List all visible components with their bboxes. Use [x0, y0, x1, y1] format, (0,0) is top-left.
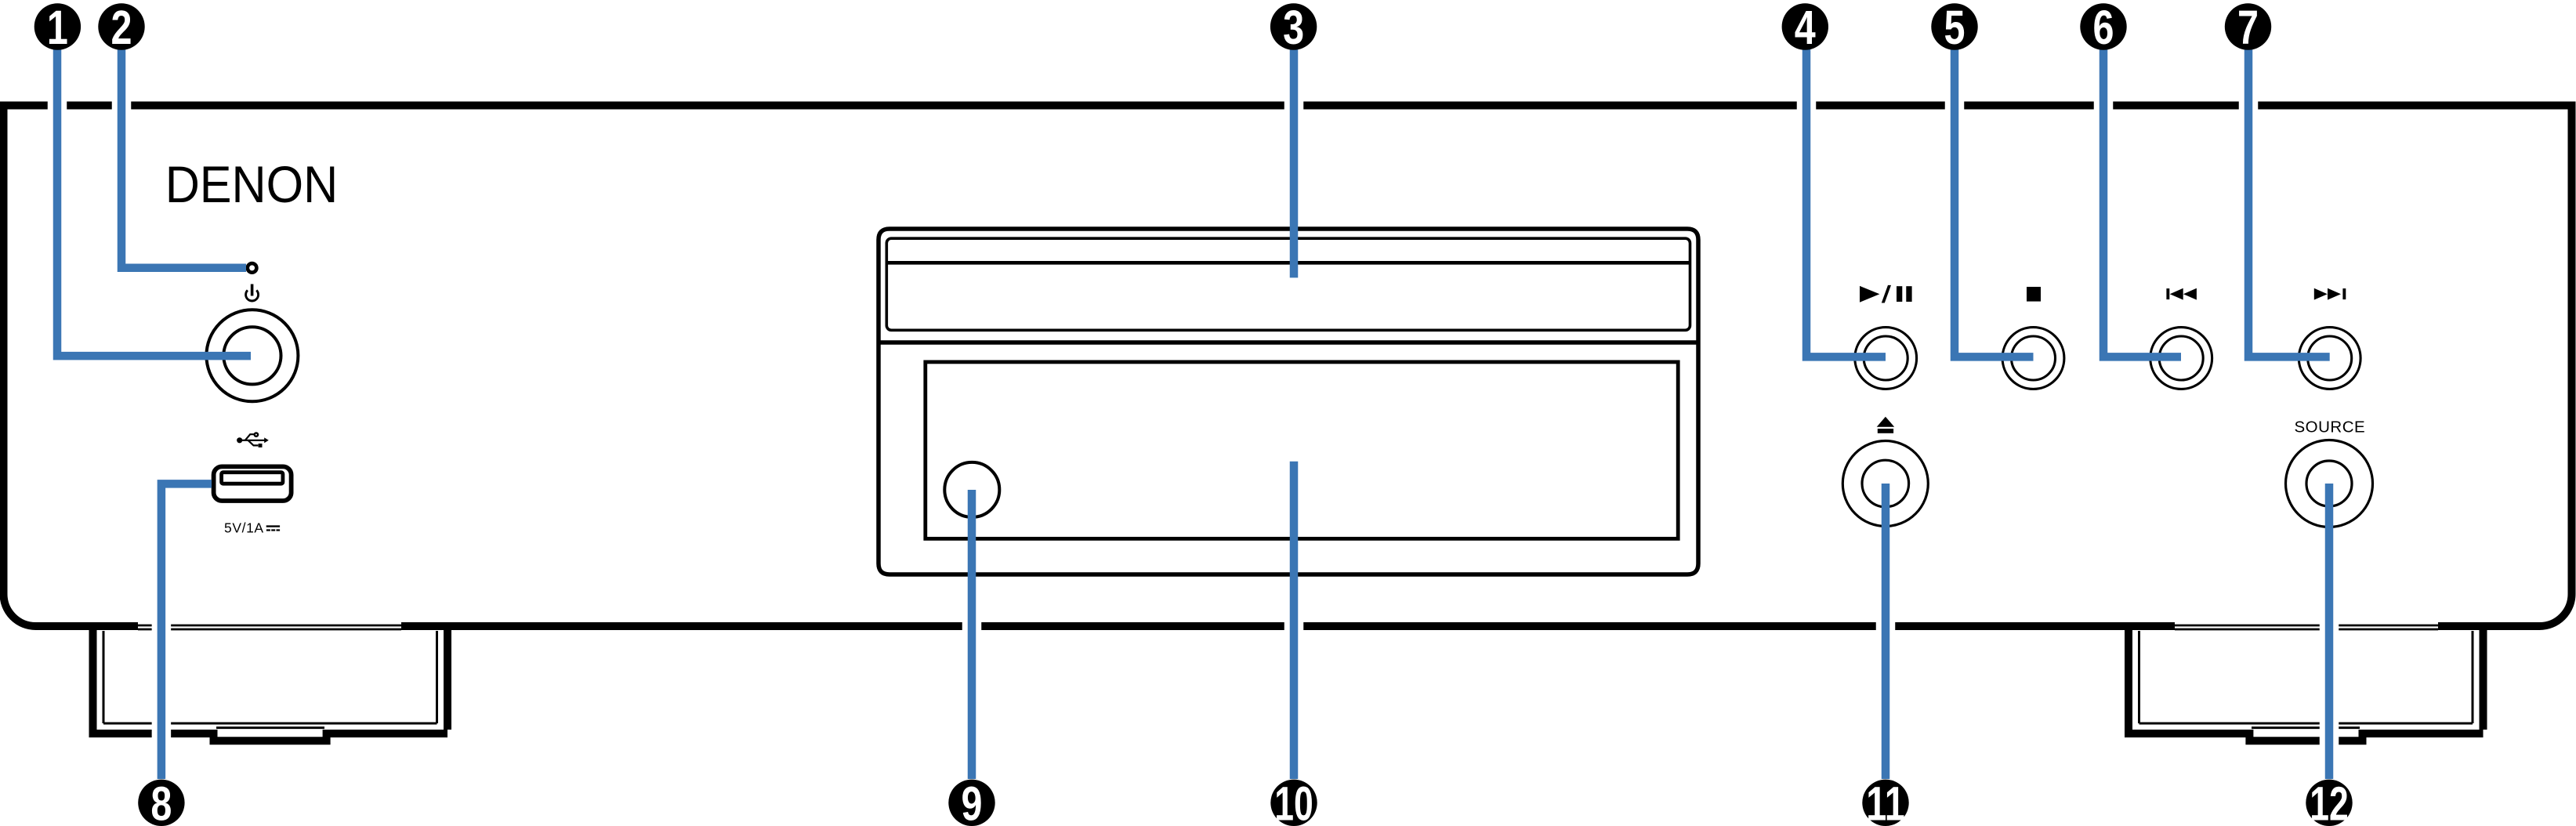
leader line 8 to USB port — [161, 484, 212, 779]
right foot pedestal inner line — [2252, 726, 2360, 729]
tray bottom divider — [879, 340, 1698, 345]
svg-text:2: 2 — [111, 1, 132, 54]
right foot inner line — [2139, 631, 2473, 723]
thin double bottom-edge lines over left foot — [138, 625, 401, 629]
bottom edge cutout over left foot — [138, 621, 401, 632]
right foot outline with pedestal — [2125, 626, 2484, 741]
display window — [926, 362, 1678, 539]
white casing for leader 5 — [1955, 31, 2034, 357]
white casing for leader 6 — [2103, 31, 2181, 357]
svg-text:6: 6 — [2093, 1, 2114, 54]
disc tray inner face — [886, 238, 1690, 330]
callout 9 — [948, 780, 995, 826]
leader line 9 to remote sensor — [968, 490, 976, 779]
svg-text:DENON: DENON — [165, 155, 339, 213]
leader line 6 to skip-back button — [2103, 31, 2181, 357]
disc tray and display bezel container — [879, 229, 1698, 574]
svg-text:1: 1 — [47, 1, 68, 54]
white casing for leader 11 — [1876, 484, 1896, 779]
callout 1 — [34, 3, 81, 49]
leader line 4 to play/pause button — [1806, 31, 1886, 357]
skip-back symbol — [2166, 288, 2197, 300]
skip-forward button — [2299, 328, 2360, 389]
power indicator LED — [248, 263, 257, 273]
callout 11 — [1862, 780, 1908, 826]
white casing for leader 8 — [161, 484, 212, 779]
svg-text:9: 9 — [962, 777, 983, 826]
callout 8 — [138, 780, 184, 826]
callout 7 — [2225, 3, 2271, 49]
white casing for leader 7 — [2248, 31, 2330, 357]
leader line 5 to stop button — [1955, 31, 2034, 357]
leader line 7 to skip-forward button — [2248, 31, 2330, 357]
eject symbol — [1877, 417, 1895, 433]
front panel outline — [4, 106, 2572, 627]
svg-text:SOURCE: SOURCE — [2295, 418, 2366, 437]
power button — [206, 310, 298, 401]
USB icon — [237, 433, 269, 447]
disc tray slit — [886, 261, 1690, 265]
remote control sensor — [944, 462, 999, 517]
white casing for leader 4 — [1806, 31, 1886, 357]
left foot outline with pedestal — [89, 626, 448, 741]
stop button — [2002, 328, 2064, 389]
eject button — [1842, 441, 1928, 527]
callout 5 — [1931, 3, 1977, 49]
left foot pedestal inner line — [216, 726, 324, 729]
svg-text:4: 4 — [1795, 1, 1816, 54]
svg-text:10: 10 — [1274, 777, 1313, 826]
callout 10 — [1270, 780, 1317, 826]
callout 4 — [1782, 3, 1828, 49]
svg-text:12: 12 — [2310, 777, 2349, 826]
bottom edge cutout over right foot — [2175, 621, 2438, 632]
USB port — [214, 466, 292, 501]
svg-text:8: 8 — [150, 777, 172, 826]
white casing for leader 3 — [1284, 31, 1304, 277]
leader line 12 to SOURCE button — [2325, 484, 2334, 779]
left foot inner line — [103, 631, 437, 723]
svg-text:5: 5 — [1944, 1, 1966, 54]
callout 2 — [98, 3, 144, 49]
stop symbol — [2027, 287, 2041, 302]
power standby symbol — [246, 284, 259, 301]
svg-text:5V/1A: 5V/1A — [224, 520, 264, 536]
skip-forward symbol — [2314, 288, 2346, 300]
DC symbol — [266, 527, 280, 531]
play/pause symbol — [1860, 285, 1912, 303]
leader line 1 to power button — [57, 31, 251, 356]
white casing for leader 1 — [57, 31, 251, 356]
skip-back button — [2150, 328, 2212, 389]
callout 6 — [2080, 3, 2126, 49]
svg-text:3: 3 — [1283, 1, 1304, 54]
svg-text:7: 7 — [2237, 1, 2259, 54]
svg-text:11: 11 — [1866, 777, 1905, 826]
white casing for leader 2 — [121, 31, 246, 268]
callout 3 — [1270, 3, 1317, 49]
white casing for leader 12 — [2320, 484, 2339, 779]
SOURCE button — [2286, 440, 2373, 527]
leader line 10 to display — [1290, 462, 1299, 779]
callout 12 — [2306, 780, 2352, 826]
white casing for leader 10 — [1284, 462, 1304, 779]
leader line 2 to power LED — [121, 31, 246, 268]
leader line 11 to eject button — [1882, 484, 1890, 779]
thin double bottom-edge lines over right foot — [2175, 625, 2438, 629]
play/pause button — [1855, 328, 1917, 389]
white casing for leader 9 — [962, 490, 982, 779]
leader line 3 to disc tray — [1290, 31, 1299, 277]
